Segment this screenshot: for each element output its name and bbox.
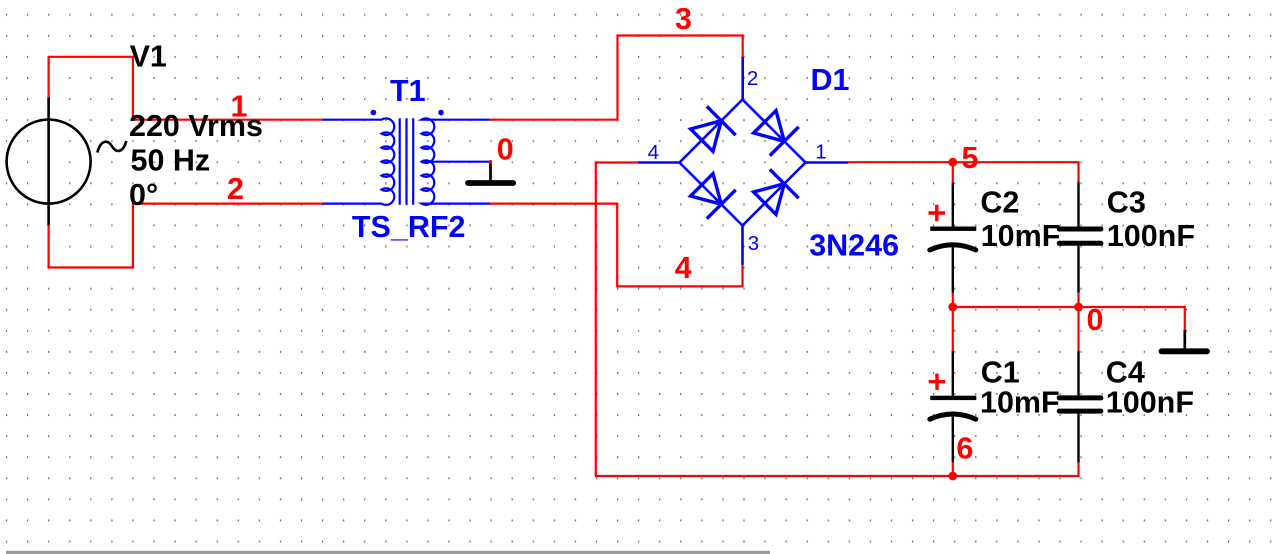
svg-text:C1: C1 xyxy=(981,356,1020,390)
svg-text:10mF: 10mF xyxy=(981,219,1061,253)
ground (right, net 0) xyxy=(1162,330,1208,351)
net 0 stub C4 top xyxy=(1077,307,1079,351)
svg-text:C4: C4 xyxy=(1106,356,1145,390)
phase dot primary xyxy=(371,110,377,116)
transformer T1 xyxy=(323,118,491,205)
net 6 stub at C1 xyxy=(952,462,954,476)
svg-text:4: 4 xyxy=(648,141,659,164)
svg-text:C2: C2 xyxy=(980,186,1019,220)
junction node 0 at C2/C1 xyxy=(948,303,957,312)
AC voltage source V1 xyxy=(7,98,127,226)
junction node 6 xyxy=(948,472,957,481)
scrollbar thumb xyxy=(6,551,770,554)
svg-text:0: 0 xyxy=(497,133,514,167)
svg-text:C3: C3 xyxy=(1107,186,1146,220)
svg-text:3: 3 xyxy=(748,232,759,255)
pin dot at tap ground junction xyxy=(489,160,492,163)
capacitor C4 (100nF) xyxy=(1057,351,1104,463)
capacitor C3 (100nF) xyxy=(1057,182,1104,293)
svg-text:2: 2 xyxy=(227,172,244,206)
svg-text:4: 4 xyxy=(675,251,692,285)
wire net 0 (midpoint rail to ground) xyxy=(953,293,1185,331)
svg-text:1: 1 xyxy=(231,90,248,124)
phase dot secondary xyxy=(438,110,444,116)
center tap lead xyxy=(422,161,491,163)
pin 3 stub xyxy=(741,226,744,265)
wire net 2 (V1 - to T1 primary bottom) xyxy=(49,204,323,268)
plus sign C1 xyxy=(929,374,946,390)
svg-text:0: 0 xyxy=(1087,303,1104,337)
svg-text:5: 5 xyxy=(962,141,979,175)
net 0 stub C1 top xyxy=(952,307,954,351)
diode lower-left (4 to 3) xyxy=(691,174,722,205)
wire net 6 (bridge pin 4 to C1/C4 bottoms) xyxy=(596,163,1079,477)
svg-text:3N246: 3N246 xyxy=(809,229,899,263)
svg-text:TS_RF2: TS_RF2 xyxy=(352,210,466,244)
svg-text:0°: 0° xyxy=(129,178,158,212)
svg-text:100nF: 100nF xyxy=(1106,386,1194,420)
net 5 stub at C2 xyxy=(952,162,954,182)
junction node 0 at C3/C4 xyxy=(1074,303,1083,312)
svg-text:100nF: 100nF xyxy=(1107,219,1195,253)
diode lower-right (3 to 1) xyxy=(754,184,785,215)
primary winding xyxy=(323,118,395,204)
pin 2 stub xyxy=(741,57,744,100)
wire net 1 (V1 + to T1 primary top) xyxy=(49,57,323,120)
svg-text:50 Hz: 50 Hz xyxy=(131,144,211,178)
pin 1 stub xyxy=(806,161,849,164)
svg-text:T1: T1 xyxy=(390,74,426,108)
diode upper-right (2 to 1) xyxy=(754,111,785,142)
net 0 stub C3 bottom xyxy=(1077,293,1079,308)
capacitor C2 (polarized 10mF) xyxy=(929,183,977,293)
plus sign C2 xyxy=(929,205,946,221)
secondary winding xyxy=(422,118,490,204)
wire net 3 (T1 sec top to bridge pin 2) xyxy=(490,36,743,120)
svg-text:6: 6 xyxy=(956,432,973,466)
core lines xyxy=(399,118,401,204)
bridge rectifier D1 xyxy=(638,57,848,265)
wire net 5 (bridge pin 1 to C2/C3 tops) xyxy=(848,162,1078,182)
diamond arms xyxy=(680,100,806,226)
pin 4 stub xyxy=(638,161,680,164)
svg-text:3: 3 xyxy=(675,2,692,36)
capacitor C1 (polarized 10mF) xyxy=(929,351,977,463)
wire net 4 (T1 sec bottom to bridge pin 3) xyxy=(490,204,743,287)
svg-text:D1: D1 xyxy=(811,63,850,97)
svg-text:2: 2 xyxy=(747,67,758,90)
diode upper-left (4 to 2) xyxy=(691,121,722,152)
svg-text:V1: V1 xyxy=(130,40,167,74)
ground (center tap) xyxy=(468,162,513,183)
svg-text:10mF: 10mF xyxy=(980,386,1060,420)
svg-text:1: 1 xyxy=(815,141,826,164)
junction node 5 xyxy=(948,158,957,167)
